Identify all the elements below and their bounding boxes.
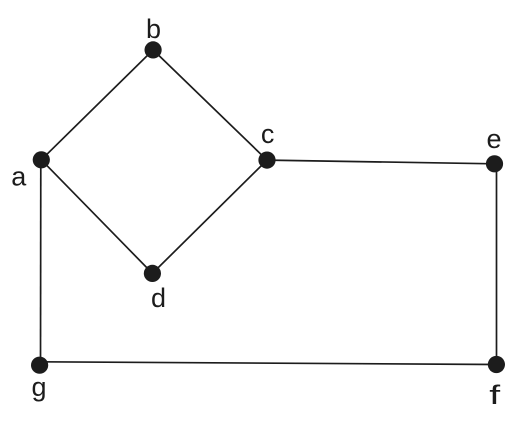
svg-text:f: f (489, 381, 501, 411)
svg-text:c: c (261, 119, 275, 149)
svg-text:d: d (151, 283, 166, 313)
svg-text:a: a (11, 162, 27, 192)
svg-text:e: e (486, 124, 501, 154)
svg-text:b: b (146, 14, 161, 44)
svg-text:g: g (31, 372, 46, 402)
